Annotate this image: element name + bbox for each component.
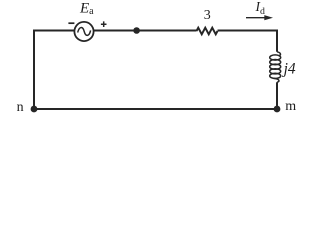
svg-text:3: 3 bbox=[204, 8, 211, 23]
svg-text:j4: j4 bbox=[282, 61, 296, 78]
svg-text:m: m bbox=[285, 99, 296, 114]
svg-text:n: n bbox=[17, 100, 24, 115]
